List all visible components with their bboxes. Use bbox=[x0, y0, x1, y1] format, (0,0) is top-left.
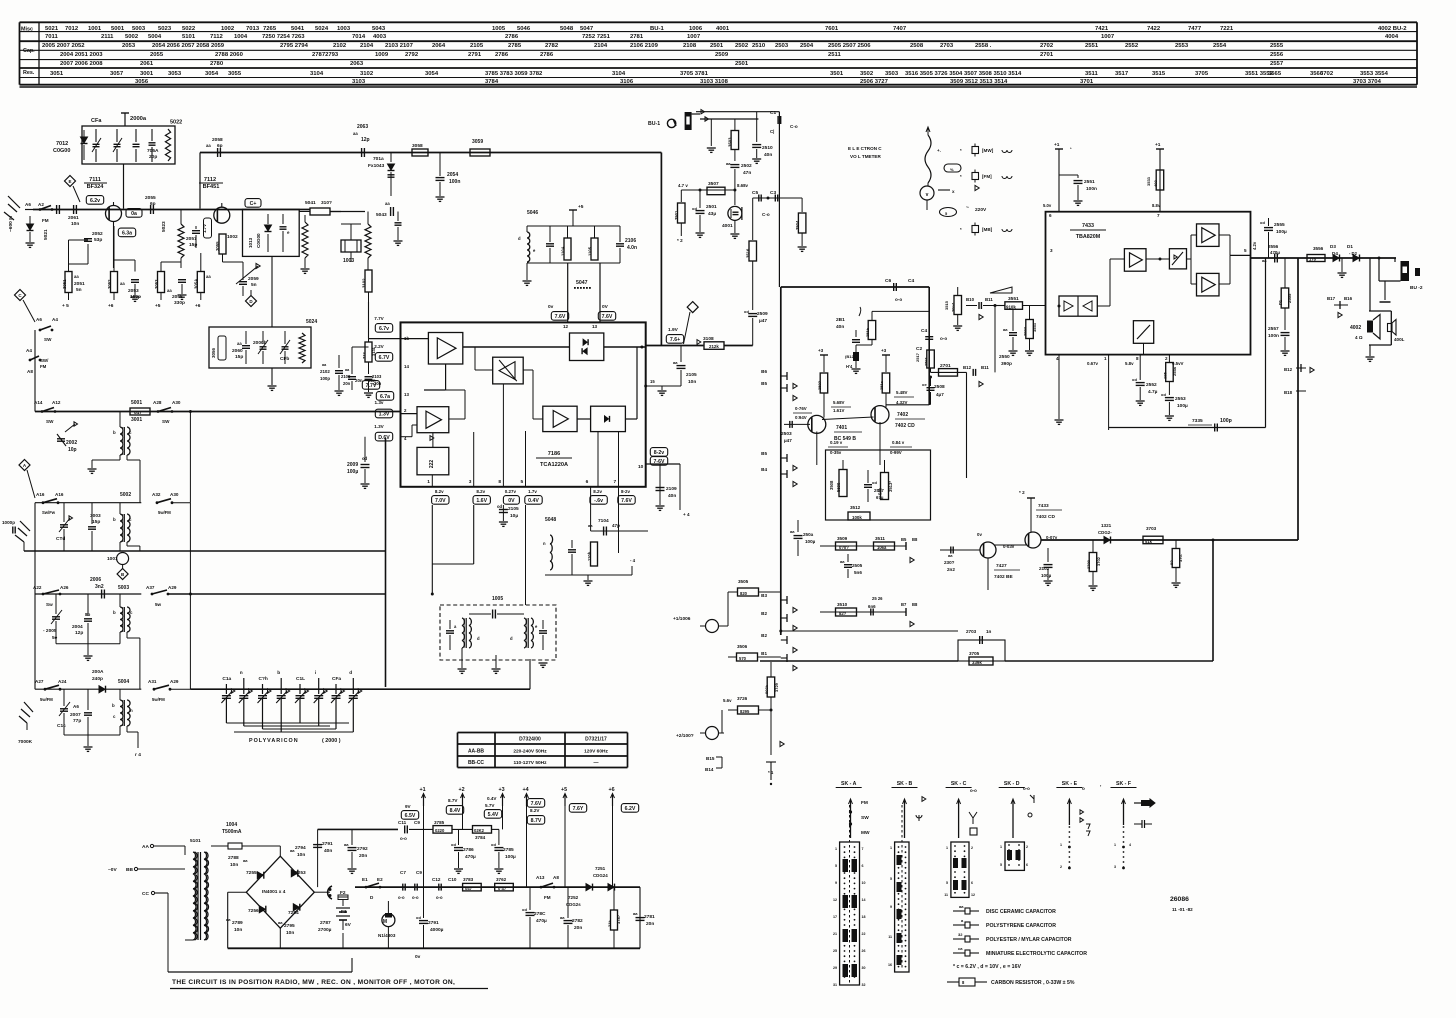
svg-text:5w: 5w bbox=[155, 602, 162, 607]
svg-text:7402: 7402 bbox=[897, 412, 908, 418]
svg-text:~0V: ~0V bbox=[108, 867, 117, 873]
svg-text:5021: 5021 bbox=[45, 26, 59, 32]
svg-text:B8: B8 bbox=[912, 602, 918, 607]
svg-text:A6: A6 bbox=[73, 704, 79, 709]
svg-text:Misc: Misc bbox=[21, 27, 33, 33]
svg-text:7186: 7186 bbox=[548, 451, 560, 457]
svg-text:5.4V: 5.4V bbox=[488, 812, 499, 818]
svg-text:3705: 3705 bbox=[969, 651, 980, 656]
svg-text:Res.: Res. bbox=[23, 70, 35, 76]
svg-text:1: 1 bbox=[946, 846, 948, 850]
svg-text:100µ: 100µ bbox=[505, 854, 516, 860]
svg-text:7111: 7111 bbox=[89, 177, 101, 183]
svg-text:+5: +5 bbox=[578, 204, 584, 210]
svg-text:b: b bbox=[113, 517, 116, 522]
svg-text:7: 7 bbox=[862, 847, 864, 851]
svg-text:aa: aa bbox=[840, 559, 845, 564]
svg-text:43µ: 43µ bbox=[708, 211, 716, 217]
svg-text:20n: 20n bbox=[359, 853, 367, 859]
svg-text:CC: CC bbox=[142, 891, 149, 897]
svg-text:CDG2-: CDG2- bbox=[1098, 530, 1112, 535]
svg-text:aa: aa bbox=[167, 288, 172, 293]
svg-text:2007 2006 2008: 2007 2006 2008 bbox=[60, 61, 103, 67]
svg-text:470µ: 470µ bbox=[465, 854, 476, 860]
svg-text:3102: 3102 bbox=[362, 278, 367, 288]
svg-text:5004: 5004 bbox=[148, 34, 162, 40]
svg-text:7000K: 7000K bbox=[18, 739, 33, 745]
svg-text:2786: 2786 bbox=[505, 34, 519, 40]
svg-text:7427: 7427 bbox=[996, 563, 1007, 569]
svg-text:3509 3512 3513 3514: 3509 3512 3513 3514 bbox=[950, 79, 1008, 85]
svg-text:2561: 2561 bbox=[924, 356, 929, 366]
svg-text:1: 1 bbox=[427, 479, 430, 485]
svg-text:A29: A29 bbox=[168, 585, 177, 590]
svg-text:5n: 5n bbox=[76, 287, 82, 293]
svg-text:B18: B18 bbox=[1284, 390, 1293, 395]
svg-text:20n: 20n bbox=[343, 381, 351, 386]
svg-text:3507: 3507 bbox=[708, 181, 719, 187]
svg-text:4.7 v: 4.7 v bbox=[678, 183, 688, 188]
svg-text:713: 713 bbox=[362, 352, 367, 359]
svg-text:5043: 5043 bbox=[376, 212, 387, 218]
svg-text:3506: 3506 bbox=[737, 644, 748, 649]
svg-text:212k: 212k bbox=[709, 344, 719, 349]
svg-text:100µ: 100µ bbox=[1041, 573, 1052, 578]
svg-text:C6: C6 bbox=[885, 278, 891, 284]
svg-text:8.2V: 8.2V bbox=[530, 808, 540, 813]
svg-text:8.2v: 8.2v bbox=[476, 489, 485, 494]
svg-text:1: 1 bbox=[1114, 843, 1116, 847]
svg-text:47n: 47n bbox=[743, 170, 751, 176]
svg-text:3108: 3108 bbox=[703, 336, 714, 342]
svg-text:C-o: C-o bbox=[762, 212, 770, 217]
svg-text:5043: 5043 bbox=[372, 26, 386, 32]
svg-text:2700: 2700 bbox=[1086, 559, 1091, 569]
svg-text:3784: 3784 bbox=[475, 835, 486, 840]
svg-text:A29: A29 bbox=[170, 679, 179, 684]
svg-text:2060: 2060 bbox=[232, 348, 243, 354]
svg-text:BB: BB bbox=[126, 867, 133, 873]
svg-text:11: 11 bbox=[888, 935, 892, 939]
svg-text:5.6v: 5.6v bbox=[723, 698, 732, 703]
svg-text:26: 26 bbox=[862, 949, 866, 953]
svg-text:106a: 106a bbox=[877, 545, 887, 550]
svg-text:2502: 2502 bbox=[741, 163, 752, 169]
svg-text:40n: 40n bbox=[764, 152, 772, 158]
svg-text:5023: 5023 bbox=[158, 26, 172, 32]
svg-text:SK - F: SK - F bbox=[1116, 781, 1131, 787]
svg-text:µ47: µ47 bbox=[784, 438, 792, 443]
svg-text:aa: aa bbox=[344, 842, 349, 847]
svg-text:0:94V: 0:94V bbox=[795, 415, 807, 420]
svg-text:B17: B17 bbox=[1327, 296, 1336, 301]
svg-text:2510: 2510 bbox=[762, 145, 773, 151]
svg-text:820: 820 bbox=[740, 591, 748, 596]
svg-text:2794: 2794 bbox=[295, 845, 306, 851]
svg-text:5600: 5600 bbox=[836, 482, 841, 492]
svg-text:4: 4 bbox=[1129, 843, 1131, 847]
svg-text:3556: 3556 bbox=[1313, 246, 1324, 251]
svg-text:5w/FM: 5w/FM bbox=[152, 697, 165, 702]
svg-text:2781: 2781 bbox=[644, 914, 655, 920]
svg-text:1002: 1002 bbox=[227, 234, 238, 240]
svg-text:8.68v: 8.68v bbox=[737, 183, 749, 188]
svg-text:2052: 2052 bbox=[92, 231, 103, 237]
svg-text:FM: FM bbox=[40, 364, 47, 369]
svg-text:6p: 6p bbox=[217, 143, 223, 149]
svg-text:22: 22 bbox=[862, 932, 866, 936]
svg-text:2104: 2104 bbox=[594, 43, 608, 49]
svg-text:0V: 0V bbox=[602, 304, 609, 310]
svg-text:A22: A22 bbox=[33, 585, 42, 590]
svg-text:100µ: 100µ bbox=[1177, 403, 1188, 409]
svg-text:o-o: o-o bbox=[970, 788, 977, 793]
svg-text:FM: FM bbox=[544, 895, 551, 900]
svg-text:+2: +2 bbox=[459, 787, 465, 793]
svg-text:1.9V: 1.9V bbox=[668, 327, 679, 333]
svg-text:10n: 10n bbox=[688, 379, 696, 385]
svg-text:120V 60Hz: 120V 60Hz bbox=[584, 749, 608, 755]
svg-text:5002: 5002 bbox=[125, 34, 139, 40]
svg-text:2051: 2051 bbox=[74, 281, 85, 287]
svg-text:2004: 2004 bbox=[72, 624, 83, 630]
svg-text:51k: 51k bbox=[878, 487, 883, 495]
svg-text:339k: 339k bbox=[972, 660, 982, 665]
svg-text:POLYESTER / MYLAR CAPACITOR: POLYESTER / MYLAR CAPACITOR bbox=[986, 937, 1072, 943]
svg-text:1001: 1001 bbox=[107, 556, 118, 562]
svg-text:32: 32 bbox=[862, 983, 866, 987]
svg-text:2789: 2789 bbox=[232, 920, 243, 926]
svg-text:B11: B11 bbox=[985, 297, 993, 302]
svg-text:0.67v: 0.67v bbox=[1087, 361, 1099, 366]
svg-text:40n: 40n bbox=[836, 324, 844, 330]
svg-text:10n: 10n bbox=[230, 862, 238, 868]
svg-text:( 2000 ): ( 2000 ) bbox=[322, 738, 341, 744]
svg-text:0-35v: 0-35v bbox=[830, 450, 842, 455]
svg-text:C0G00: C0G00 bbox=[256, 233, 261, 248]
svg-text:C11: C11 bbox=[398, 820, 407, 825]
svg-text:14: 14 bbox=[862, 898, 866, 902]
svg-text:aa: aa bbox=[120, 281, 125, 286]
svg-text:31k: 31k bbox=[607, 920, 612, 927]
svg-text:1001: 1001 bbox=[88, 26, 102, 32]
svg-text:o: o bbox=[1082, 786, 1085, 791]
svg-text:51k: 51k bbox=[1145, 539, 1153, 544]
svg-text:7.6+: 7.6+ bbox=[670, 337, 680, 343]
svg-text:3501: 3501 bbox=[830, 71, 844, 77]
svg-text:7.6Y: 7.6Y bbox=[573, 806, 584, 812]
svg-text:7256: 7256 bbox=[248, 908, 259, 914]
svg-text:oe: oe bbox=[922, 382, 927, 387]
svg-text:20nA: 20nA bbox=[951, 302, 956, 312]
svg-text:1007: 1007 bbox=[1101, 34, 1115, 40]
svg-text:3: 3 bbox=[1114, 865, 1116, 869]
svg-text:5.0v: 5.0v bbox=[1043, 203, 1052, 208]
svg-text:6: 6 bbox=[1026, 863, 1028, 867]
svg-text:2553: 2553 bbox=[1175, 396, 1186, 402]
svg-text:THE CIRCUIT IS IN POSIT: THE CIRCUIT IS IN POSITION RADIO, MW , R… bbox=[172, 979, 455, 986]
svg-text:[FM]: [FM] bbox=[982, 174, 992, 179]
svg-text:aa: aa bbox=[278, 920, 283, 925]
svg-text:5: 5 bbox=[890, 877, 892, 881]
svg-text:D7324/00: D7324/00 bbox=[519, 737, 541, 743]
svg-text:Sw: Sw bbox=[46, 602, 53, 607]
svg-text:2004 2051 2003: 2004 2051 2003 bbox=[60, 52, 103, 58]
svg-text:400: 400 bbox=[1153, 180, 1158, 187]
svg-text:7601: 7601 bbox=[825, 26, 839, 32]
svg-text:3056: 3056 bbox=[135, 79, 149, 85]
svg-text:27872793: 27872793 bbox=[312, 52, 339, 58]
svg-text:[MW]: [MW] bbox=[982, 148, 994, 153]
svg-text:C7: C7 bbox=[400, 870, 406, 875]
svg-text:1002: 1002 bbox=[221, 26, 235, 32]
svg-text:od: od bbox=[692, 206, 697, 211]
svg-text:7401: 7401 bbox=[836, 425, 847, 431]
svg-text:IN4001 x 4: IN4001 x 4 bbox=[262, 889, 286, 895]
svg-text:DISC CERAMIC CAPACITOR: DISC CERAMIC CAPACITOR bbox=[986, 909, 1056, 915]
svg-text:0-99V: 0-99V bbox=[890, 450, 902, 455]
svg-text:7255: 7255 bbox=[246, 870, 257, 876]
svg-text:7252: 7252 bbox=[568, 895, 579, 900]
svg-text:5: 5 bbox=[946, 881, 948, 885]
svg-text:aa: aa bbox=[633, 911, 638, 916]
svg-text:2503: 2503 bbox=[775, 43, 789, 49]
svg-text:2000a: 2000a bbox=[130, 116, 147, 122]
svg-text:POLYSTYRENE CAPACITOR: POLYSTYRENE CAPACITOR bbox=[986, 923, 1056, 929]
svg-text:5101: 5101 bbox=[182, 34, 196, 40]
svg-text:12: 12 bbox=[833, 898, 837, 902]
svg-text:BF324: BF324 bbox=[87, 184, 105, 190]
svg-text:A12: A12 bbox=[52, 400, 61, 405]
svg-text:aa: aa bbox=[74, 274, 79, 279]
svg-text:B2: B2 bbox=[761, 633, 767, 638]
svg-text:0v: 0v bbox=[977, 532, 982, 537]
svg-text:82?: 82? bbox=[839, 611, 847, 616]
svg-text:100n: 100n bbox=[449, 179, 460, 185]
svg-text:B4: B4 bbox=[761, 467, 767, 472]
svg-text:2517: 2517 bbox=[915, 352, 920, 362]
svg-text:305A: 305A bbox=[194, 279, 199, 289]
svg-text:18: 18 bbox=[862, 915, 866, 919]
svg-text:3551: 3551 bbox=[1008, 296, 1019, 302]
svg-text:7: 7 bbox=[1157, 213, 1160, 218]
svg-text:4003: 4003 bbox=[373, 34, 387, 40]
svg-text:2703: 2703 bbox=[966, 629, 977, 634]
svg-text:2061: 2061 bbox=[68, 215, 79, 221]
svg-text:+ 4: + 4 bbox=[683, 512, 690, 517]
svg-text:8.4V: 8.4V bbox=[450, 808, 461, 814]
svg-text:110b: 110b bbox=[587, 551, 592, 561]
svg-text:5004: 5004 bbox=[118, 679, 129, 685]
svg-text:7012: 7012 bbox=[65, 26, 79, 32]
svg-text:2551: 2551 bbox=[1084, 179, 1095, 185]
svg-text:3508: 3508 bbox=[829, 480, 834, 490]
svg-text:3503: 3503 bbox=[728, 137, 733, 147]
svg-text:3553 3554: 3553 3554 bbox=[1360, 71, 1389, 77]
svg-text:+ 5: + 5 bbox=[62, 303, 69, 309]
svg-text:1004: 1004 bbox=[226, 822, 237, 828]
svg-text:A31: A31 bbox=[148, 679, 157, 684]
svg-text:20p: 20p bbox=[149, 154, 157, 160]
svg-text:2552: 2552 bbox=[1125, 43, 1139, 49]
svg-text:1.61V: 1.61V bbox=[833, 408, 845, 413]
svg-text:SW: SW bbox=[162, 419, 170, 424]
svg-text:370-: 370- bbox=[1178, 553, 1183, 562]
svg-text:2502: 2502 bbox=[735, 43, 749, 49]
svg-text:2785: 2785 bbox=[503, 847, 514, 853]
svg-text:255a: 255a bbox=[1172, 366, 1177, 376]
svg-text:77p: 77p bbox=[73, 718, 81, 724]
svg-text:6: 6 bbox=[1049, 213, 1052, 218]
svg-text:30: 30 bbox=[862, 966, 866, 970]
svg-text:12p: 12p bbox=[361, 137, 370, 143]
svg-text:7.0V: 7.0V bbox=[435, 498, 446, 504]
svg-text:0 47: 0 47 bbox=[498, 886, 507, 891]
svg-text:C1c: C1c bbox=[57, 723, 66, 729]
svg-text:1.3V: 1.3V bbox=[379, 412, 390, 418]
svg-text:0.19 v: 0.19 v bbox=[830, 440, 843, 445]
svg-text:B6: B6 bbox=[761, 369, 767, 374]
svg-text:1013: 1013 bbox=[248, 237, 253, 248]
svg-text:ca: ca bbox=[958, 946, 963, 951]
svg-text:2788 2060: 2788 2060 bbox=[215, 52, 244, 58]
svg-text:aa: aa bbox=[206, 143, 211, 148]
svg-text:5: 5 bbox=[521, 479, 524, 485]
svg-text:C12: C12 bbox=[432, 877, 441, 882]
svg-text:B14: B14 bbox=[705, 767, 714, 772]
svg-text:10: 10 bbox=[638, 464, 644, 470]
svg-text:2509: 2509 bbox=[757, 311, 768, 317]
svg-text:A14: A14 bbox=[34, 400, 43, 405]
svg-text:350?: 350? bbox=[817, 380, 822, 390]
svg-text:3566: 3566 bbox=[1310, 71, 1324, 77]
svg-text:2n2: 2n2 bbox=[947, 567, 955, 572]
svg-text:3502: 3502 bbox=[860, 71, 874, 77]
svg-text:CTd: CTd bbox=[56, 536, 65, 542]
svg-text:A30: A30 bbox=[172, 400, 181, 405]
svg-text:2785: 2785 bbox=[508, 43, 522, 49]
svg-text:3553: 3553 bbox=[1032, 322, 1037, 332]
svg-text:220V: 220V bbox=[975, 207, 987, 213]
svg-text:15p: 15p bbox=[92, 519, 100, 525]
svg-text:B8: B8 bbox=[912, 537, 918, 542]
svg-text:100µ: 100µ bbox=[805, 539, 816, 544]
svg-text:b: b bbox=[113, 610, 116, 615]
svg-text:7.6V: 7.6V bbox=[602, 314, 613, 320]
svg-text:C0G00: C0G00 bbox=[53, 148, 70, 154]
svg-text:n: n bbox=[240, 671, 243, 676]
svg-text:3504: 3504 bbox=[795, 220, 800, 230]
svg-text:TBA820M: TBA820M bbox=[1076, 234, 1101, 240]
svg-text:aa: aa bbox=[290, 848, 295, 853]
svg-text:od: od bbox=[1132, 377, 1137, 382]
svg-text:2791: 2791 bbox=[322, 841, 333, 847]
svg-text:+1: +1 bbox=[420, 787, 426, 793]
svg-text:5.7V: 5.7V bbox=[485, 803, 495, 808]
svg-text:+5: +5 bbox=[155, 303, 161, 309]
svg-text:MINIATURE ELECTROLYTIC CAPAC: MINIATURE ELECTROLYTIC CAPACITOR bbox=[986, 951, 1087, 957]
svg-text:20n: 20n bbox=[574, 925, 582, 931]
svg-text:SW: SW bbox=[46, 419, 54, 424]
svg-text:aa: aa bbox=[790, 529, 795, 534]
svg-text:od: od bbox=[1260, 220, 1265, 225]
svg-text:b: b bbox=[112, 703, 115, 708]
svg-text:32: 32 bbox=[958, 932, 963, 937]
svg-text:2506 3727: 2506 3727 bbox=[860, 79, 889, 85]
svg-text:3n2: 3n2 bbox=[95, 584, 104, 590]
svg-text:1: 1 bbox=[1000, 845, 1002, 849]
svg-text:2501: 2501 bbox=[735, 61, 749, 67]
svg-text:3051: 3051 bbox=[50, 71, 64, 77]
svg-text:E2: E2 bbox=[377, 877, 383, 882]
svg-text:7112: 7112 bbox=[204, 177, 216, 183]
svg-text:+5: +5 bbox=[561, 787, 567, 793]
svg-text:3762: 3762 bbox=[496, 877, 507, 882]
svg-text:5022: 5022 bbox=[182, 26, 196, 32]
svg-text:5048: 5048 bbox=[560, 26, 574, 32]
svg-text:POLYVARICON: POLYVARICON bbox=[249, 738, 299, 744]
svg-text:1005: 1005 bbox=[492, 596, 503, 602]
svg-text:6: 6 bbox=[971, 881, 973, 885]
svg-text:2006: 2006 bbox=[90, 577, 101, 583]
svg-text:3102: 3102 bbox=[360, 71, 374, 77]
svg-text:9V: 9V bbox=[405, 804, 412, 809]
svg-text:3512: 3512 bbox=[850, 505, 861, 510]
svg-text:6.7V: 6.7V bbox=[379, 355, 390, 361]
svg-text:5046: 5046 bbox=[527, 210, 538, 216]
svg-text:7402 CD: 7402 CD bbox=[895, 423, 915, 429]
svg-text:8.7V: 8.7V bbox=[531, 818, 542, 824]
svg-text:240p: 240p bbox=[92, 676, 103, 682]
svg-text:b: b bbox=[113, 430, 116, 435]
svg-text:5046: 5046 bbox=[517, 26, 531, 32]
svg-text:2102: 2102 bbox=[1039, 566, 1050, 571]
svg-text:od: od bbox=[497, 504, 503, 509]
svg-text:2057: 2057 bbox=[186, 236, 197, 242]
svg-text:SK - E: SK - E bbox=[1062, 781, 1078, 787]
svg-text:2B1: 2B1 bbox=[836, 317, 845, 323]
svg-text:6.5V: 6.5V bbox=[405, 813, 416, 819]
svg-text:+1/1006: +1/1006 bbox=[673, 616, 691, 622]
svg-text:3106: 3106 bbox=[620, 79, 634, 85]
svg-text:2054 2056 2057 2058 2059: 2054 2056 2057 2058 2059 bbox=[152, 43, 225, 49]
svg-text:2780: 2780 bbox=[210, 61, 224, 67]
svg-text:B2: B2 bbox=[761, 611, 767, 616]
svg-text:1: 1 bbox=[1060, 843, 1062, 847]
svg-text:C|: C| bbox=[770, 129, 774, 134]
svg-text:2795 2794: 2795 2794 bbox=[280, 43, 309, 49]
svg-text:2552: 2552 bbox=[1146, 382, 1157, 388]
svg-text:4001: 4001 bbox=[722, 223, 733, 229]
svg-text:i: i bbox=[315, 670, 316, 676]
svg-text:1.3V: 1.3V bbox=[374, 424, 384, 429]
svg-text:9: 9 bbox=[835, 881, 837, 885]
svg-text:25: 25 bbox=[833, 949, 837, 953]
svg-text:D3: D3 bbox=[1330, 244, 1336, 249]
svg-text:C4: C4 bbox=[921, 328, 927, 334]
svg-text:b: b bbox=[277, 670, 280, 676]
svg-text:2108: 2108 bbox=[683, 43, 697, 49]
svg-text:2106 2109: 2106 2109 bbox=[630, 43, 659, 49]
svg-text:aa: aa bbox=[948, 553, 953, 558]
svg-text:2554: 2554 bbox=[1213, 43, 1227, 49]
svg-text:5: 5 bbox=[835, 864, 837, 868]
svg-text:3517: 3517 bbox=[1115, 71, 1129, 77]
svg-text:2701: 2701 bbox=[940, 363, 951, 369]
svg-text:C1L: C1L bbox=[296, 676, 305, 682]
svg-text:5024: 5024 bbox=[315, 26, 329, 32]
svg-text:2: 2 bbox=[1165, 356, 1168, 361]
